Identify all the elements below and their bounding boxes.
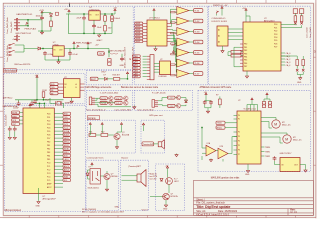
transistor Q9 (163, 193, 170, 200)
wire U7-U8 4 (228, 39, 243, 41)
wires MCU left rows (20, 113, 24, 124)
svg-text:TXD0: TXD0 (217, 123, 222, 125)
svg-text:CAN1: CAN1 (133, 55, 138, 58)
transistor Q2 (124, 96, 128, 100)
wire MCU pin row 3 (54, 120, 63, 122)
svg-text:KiCad E.D.A. kicad (5.1.10)-1: KiCad E.D.A. kicad (5.1.10)-1 (196, 214, 229, 217)
svg-text:GND PWR/TLG1: GND PWR/TLG1 (15, 33, 32, 35)
+5V arrow ecr2 (101, 123, 103, 127)
svg-text:LED?: LED? (174, 181, 179, 183)
wire MCU pin row 19 (54, 176, 63, 178)
ground U10 (304, 169, 307, 172)
pin U5 left 7 (143, 40, 147, 42)
pins U3 left (58, 84, 64, 93)
svg-text:Conn_01x02: Conn_01x02 (310, 27, 312, 38)
svg-text:Verin?: Verin? (142, 209, 149, 212)
svg-text:OUT: OUT (59, 49, 63, 51)
wire MCU pin row 11 (54, 148, 63, 150)
label Ecrans (87, 116, 99, 120)
junction (83, 13, 84, 14)
svg-text:P1: P1 (238, 119, 240, 121)
net label box amp 4 (194, 40, 203, 44)
capacitor C5 (43, 51, 47, 56)
junction (58, 59, 59, 60)
svg-text:Conn_01x06: Conn_01x06 (6, 114, 8, 126)
svg-text:D?: D? (104, 75, 106, 77)
pin J4 2 (147, 58, 150, 60)
wire U9 TXD0 (225, 122, 237, 124)
LED DC (296, 69, 298, 71)
svg-text:SWCom-SW170: SWCom-SW170 (14, 64, 31, 66)
feed resistor amp 7 (171, 74, 175, 76)
svg-text:LDR-NTC N-OFF: LDR-NTC N-OFF (212, 21, 228, 23)
wire MCU pin row 8 (54, 137, 63, 139)
svg-text:ADC0: ADC0 (64, 161, 69, 164)
svg-text:120R: 120R (42, 90, 47, 92)
net label box MCU left 4 (12, 122, 20, 125)
wire MCU pin row 18 (54, 172, 63, 174)
svg-text:Motor_DC: Motor_DC (282, 124, 291, 127)
pwr flag (26, 22, 28, 25)
svg-text:+5V: +5V (95, 44, 99, 46)
pin U8 left 3 (240, 49, 243, 51)
connector 2p box B (299, 9, 303, 14)
op-amp A6 (177, 59, 189, 67)
wire C2 down (83, 20, 85, 33)
wire diode to reg (41, 48, 53, 50)
svg-text:PB4: PB4 (47, 155, 50, 157)
wire MCU pin row 15 (54, 162, 63, 164)
net label box amp 7 (194, 72, 203, 76)
group box Alimentation (5, 6, 134, 70)
junction (73, 48, 74, 49)
transistor Q7 (114, 134, 120, 140)
diode D1 (50, 14, 53, 17)
svg-text:Conn_02x05: Conn_02x05 (11, 21, 13, 33)
net label box clip L2 (115, 97, 122, 101)
wire J4 5 (143, 67, 147, 69)
wire U8 vcc (246, 12, 250, 22)
net label box J4 1 (133, 55, 141, 58)
resistor R52 (101, 134, 108, 137)
wire MCU pin row 10 (54, 144, 63, 146)
svg-text:(Tweeter)/HP?: (Tweeter)/HP? (128, 165, 142, 168)
net label box clipR 2 (168, 104, 176, 108)
wire MCU gnd (38, 188, 40, 200)
capacitor C20 (203, 100, 207, 105)
pin U9 right 1 (261, 146, 265, 148)
net label box U9 RXD0 (216, 126, 225, 129)
capacitor C2 (82, 16, 86, 21)
pin J4 5 (147, 67, 150, 69)
wire R1 down and rail (38, 27, 51, 31)
svg-text:PB7: PB7 (244, 66, 247, 68)
resistor R22 (294, 16, 297, 22)
svg-text:PD1: PD1 (274, 27, 277, 29)
ground amp (209, 159, 212, 162)
junction (44, 103, 45, 104)
wire J4-U6 1 (154, 62, 160, 64)
wires motor M1 (261, 118, 276, 129)
svg-text:Ecrans: Ecrans (88, 117, 96, 120)
+5V arrow com (221, 6, 223, 10)
net label box J4 4 (133, 64, 141, 67)
wire U7-U8 3 (228, 35, 243, 37)
LED D8 (166, 178, 173, 185)
svg-text:CAN2: CAN2 (133, 58, 138, 61)
pin J4 8 (147, 76, 150, 78)
svg-text:GND: GND (163, 209, 168, 211)
svg-text:PB2: PB2 (47, 148, 50, 150)
wire MCU pin row 14 (54, 158, 63, 160)
svg-text:PB2: PB2 (244, 50, 247, 52)
svg-text:BC547A: BC547A (122, 134, 130, 137)
wire R2-R3 (104, 21, 106, 25)
pin U5 right 6 (167, 37, 171, 39)
pin J4 7 (147, 73, 150, 75)
red mark near teal labels (130, 59, 132, 61)
wire MCU pin row 17 (54, 169, 63, 171)
wire amp input minus 7 (175, 74, 177, 76)
svg-text:R?: R? (216, 94, 218, 96)
wires fanout left clip (95, 98, 131, 107)
ground 7805 (57, 60, 60, 63)
svg-text:+12V: +12V (39, 10, 45, 12)
connector J1b pins (14, 35, 20, 41)
svg-text:A2: A2 (218, 34, 220, 37)
svg-text:INT1: INT1 (64, 124, 68, 126)
op-amp A7 (177, 70, 189, 78)
wires crystal (35, 98, 64, 108)
pin U9 left 5 (234, 140, 238, 142)
wire Q7 down (116, 140, 118, 146)
net label box Tweeter (142, 142, 155, 146)
resistor R20 (231, 50, 241, 53)
svg-text:T-CL5: T-CL5 (168, 98, 173, 100)
svg-text:M: M (274, 123, 277, 127)
+5V arrow maxlink (205, 93, 207, 97)
junction (36, 99, 37, 100)
svg-text:U? 74HC14: U? 74HC14 (149, 18, 160, 20)
svg-text:Date: 26/05/2022: Date: 26/05/2022 (218, 210, 238, 213)
wire J4 4 (143, 64, 147, 66)
capacitor C11 left (8, 127, 12, 131)
net label box row 13 (63, 154, 71, 157)
svg-text:CA_3: CA_3 (286, 61, 291, 64)
pin U5 right 1 (167, 22, 171, 24)
svg-text:A3: A3 (218, 40, 220, 43)
svg-text:PD7: PD7 (47, 138, 50, 140)
net label box amp 1 (194, 9, 203, 13)
pin J4 9 (147, 78, 150, 80)
+BATT arrow (41, 11, 43, 15)
pin J4 4 (147, 64, 150, 66)
diode D9 (160, 178, 163, 181)
svg-text:PD5: PD5 (274, 40, 277, 42)
svg-text:TLG6: TLG6 (194, 63, 200, 65)
junction (108, 51, 109, 52)
net label box U5 row 6 (135, 37, 143, 40)
svg-text:PWR_FLAG +5V: PWR_FLAG +5V (76, 41, 92, 44)
pin J4 1 (147, 55, 150, 57)
wire C3 down (105, 21, 112, 33)
svg-text:CAN5: CAN5 (133, 67, 138, 70)
net label box J4 6 (133, 69, 141, 72)
svg-text:Tweeter/HP?: Tweeter/HP? (143, 143, 155, 146)
svg-text:MOSI: MOSI (12, 113, 17, 115)
svg-text:PWR_FLAG: PWR_FLAG (25, 27, 37, 30)
svg-text:TWR1: TWR1 (265, 151, 270, 153)
wire U7 gnd (222, 46, 224, 50)
wires conn to resistors (295, 13, 301, 15)
svg-text:100uF: 100uF (114, 18, 121, 20)
frame zone ticks bottom (29, 215, 295, 217)
wire bus vertical 2 (171, 20, 177, 27)
svg-text:LED1: LED1 (64, 159, 69, 161)
net label box J4 5 (133, 67, 141, 70)
svg-text:MAXLINK gestion des relais: MAXLINK gestion des relais (211, 177, 240, 180)
net label box row 9 (63, 140, 71, 143)
net label box SWITCH (97, 52, 105, 56)
svg-text:CAN7: CAN7 (133, 72, 138, 75)
squiggle under label (110, 53, 118, 54)
group box interface RS485 (4, 74, 85, 104)
svg-text:ADC3: ADC3 (64, 172, 69, 175)
capacitor C24 pol (268, 102, 271, 108)
svg-text:ADC1: ADC1 (64, 165, 69, 168)
svg-text:PD4: PD4 (47, 127, 50, 129)
svg-text:CAN4: CAN4 (133, 64, 138, 67)
net label box row 17 (63, 168, 71, 171)
wire U9 RXD0 (225, 127, 237, 129)
wire bus vertical 7 (171, 41, 177, 72)
net label box amp 6 (194, 61, 203, 65)
+5V arrow out (114, 9, 116, 13)
wire U9 gnd (247, 164, 249, 169)
net label box MCU left 2 (12, 115, 20, 118)
svg-text:+5V: +5V (113, 8, 117, 10)
group box T-CLIP left (87, 90, 133, 110)
svg-text:SPK1: SPK1 (64, 141, 69, 143)
svg-text:R52: R52 (101, 132, 104, 134)
transistor Q4 (124, 101, 128, 105)
wire U8 right r1 (281, 25, 302, 28)
pin U5 left 3 (143, 28, 147, 30)
diode D6 (185, 100, 188, 103)
wire MCU pin row 4 (54, 123, 63, 125)
svg-text:SWITCH-GND/S: SWITCH-GND/S (108, 50, 125, 52)
svg-text:PC5: PC5 (47, 180, 50, 182)
+5V arrow led (166, 166, 168, 170)
svg-text:Title: DigiTest update: Title: DigiTest update (196, 205, 230, 209)
ground clip (133, 106, 136, 109)
pin U5 left 2 (143, 25, 147, 27)
relay K1 (90, 169, 100, 185)
svg-text:PC1: PC1 (47, 166, 50, 168)
IC U10 osc body (280, 158, 300, 172)
capacitor C8 (120, 57, 124, 62)
wire U7-U8 2 (228, 32, 243, 34)
frame zone ticks left (0, 57, 3, 165)
net label box amp 2 (194, 19, 203, 23)
svg-text:CA_4: CA_4 (286, 64, 291, 67)
net label box row 15 (63, 161, 71, 164)
frame zone ticks right (313, 57, 316, 165)
wire bus vertical 3 (171, 28, 177, 31)
svg-text:ECRA: ECRA (64, 130, 70, 133)
svg-text:ATMEGA connexion GPS carte: ATMEGA connexion GPS carte (200, 86, 232, 89)
wire r30 (219, 96, 221, 108)
net label box row 2 (63, 116, 71, 119)
transistor Q6 (176, 104, 180, 108)
wire U8 left loop (234, 47, 240, 67)
capacitor C13 xtal (33, 99, 37, 104)
wire LM317 out (94, 12, 115, 25)
svg-text:U?: U? (238, 100, 240, 102)
svg-text:PB0: PB0 (47, 141, 50, 143)
diode D2 (38, 47, 41, 50)
wire U5 vcc (153, 12, 155, 20)
svg-text:ADC2: ADC2 (64, 168, 69, 171)
svg-text:MISO: MISO (12, 116, 17, 118)
net label box row 1 (63, 112, 71, 115)
resistor R24 (296, 60, 299, 66)
net label box U5 row 2 (135, 25, 143, 28)
svg-text:Buzzer: Buzzer (121, 157, 128, 160)
svg-text:INT0: INT0 (64, 120, 68, 122)
capacitor C9 (17, 101, 21, 106)
resistor R4 120 (42, 92, 45, 98)
wire U5 gnd (156, 46, 174, 51)
svg-text:T-CL: T-CL (64, 127, 68, 129)
svg-text:CAN8: CAN8 (133, 75, 138, 78)
frame outer bottom line (0, 217, 316, 219)
transistor Q3 (109, 101, 113, 105)
IC U9 MCU2 body (237, 111, 261, 164)
op-amp A2 (177, 17, 189, 25)
svg-text:PC4: PC4 (47, 176, 50, 178)
group box Bandes de sens (134, 6, 208, 85)
svg-text:P3: P3 (238, 136, 240, 138)
connector J1 pins (14, 18, 20, 30)
IC U8 ATtiny body (243, 22, 281, 71)
wires rpack (228, 52, 243, 56)
svg-text:TLG3: TLG3 (194, 32, 200, 34)
op-amp A8 (206, 145, 216, 156)
svg-text:Conn_01x04_Male_D: Conn_01x04_Male_D (86, 109, 106, 111)
svg-text:RXD0: RXD0 (217, 127, 222, 129)
wire led top (167, 170, 169, 178)
net label box row 19 (63, 175, 71, 178)
svg-text:G5LE-14DC5: G5LE-14DC5 (88, 188, 99, 190)
svg-text:22pF: 22pF (45, 99, 50, 101)
junction (83, 33, 84, 34)
wire tweeter (144, 127, 159, 144)
paper margin top (0, 0, 320, 3)
pin U5 left 5 (143, 34, 147, 36)
svg-text:PD3: PD3 (274, 34, 277, 36)
MCU U4 ATmega328 body (23, 108, 54, 194)
connector J2 (89, 97, 95, 105)
svg-text:MAX3485-ESA: MAX3485-ESA (3, 105, 18, 108)
capacitor C10 (30, 101, 34, 106)
transistor Q8 (104, 174, 110, 180)
pin U8 left 6 (240, 59, 243, 61)
frame zone ticks top (29, 0, 295, 3)
ground rail (98, 34, 101, 37)
capacitor C23 pol (262, 102, 265, 108)
svg-text:PB1: PB1 (47, 145, 50, 147)
svg-text:P0: P0 (238, 115, 240, 117)
svg-text:GND: GND (245, 174, 250, 176)
group box Microcontroleur (5, 105, 86, 211)
pin U9 left 2 (234, 118, 238, 120)
wire amp input minus 5 (175, 53, 177, 55)
svg-text:Motor_DC: Motor_DC (293, 139, 302, 142)
wire MCU pin row 5 (54, 127, 63, 129)
svg-text:R51: R51 (89, 132, 92, 134)
diode D5 (105, 77, 108, 80)
wire amp input minus 2 (175, 22, 177, 24)
svg-text:K?: K? (89, 167, 91, 169)
capacitor C7 electrolytic (108, 59, 111, 66)
net label box J4 7 (133, 72, 141, 75)
wire amp input minus 1 (175, 11, 177, 13)
wires verin (88, 170, 107, 188)
wires ecrans (89, 126, 122, 135)
junction (104, 33, 105, 34)
connector 2p box A (293, 9, 297, 14)
svg-text:Conn_02x05_Male: Conn_02x05_Male (7, 44, 9, 62)
regulator U1 LM317 body (89, 11, 100, 20)
wires amps (202, 128, 237, 162)
wire J4 7 (143, 73, 147, 75)
svg-text:SPK2: SPK2 (64, 145, 69, 147)
svg-text:GPS pins vert: GPS pins vert (149, 114, 163, 117)
svg-text:T-CL6: T-CL6 (168, 106, 173, 108)
junction (93, 33, 94, 34)
svg-text:OUT: OUT (95, 14, 99, 16)
svg-text:PB5: PB5 (244, 60, 247, 62)
wire MCU pin row 6 (54, 130, 63, 132)
motor M2 (283, 135, 291, 143)
ground (40, 31, 43, 34)
svg-text:AREF: AREF (47, 182, 52, 185)
svg-text:TLG4: TLG4 (194, 42, 200, 44)
wires C23 C24 (264, 97, 270, 102)
capacitor C12 left (13, 127, 17, 131)
wire MCU pin row 12 (54, 151, 63, 153)
net label box clip row2b (115, 101, 122, 105)
net label box J4 8 (133, 75, 141, 78)
net label box U9 TXD0 (216, 121, 225, 124)
svg-text:PD4: PD4 (274, 37, 277, 39)
wire J4-U6 4 (154, 71, 160, 73)
wire U8 right row 4 (281, 61, 285, 63)
feed resistor amp 2 (171, 22, 175, 24)
wire flag (217, 10, 223, 16)
resistor R21 (231, 54, 241, 57)
wire led row (98, 76, 128, 79)
feed resistor amp 6 (171, 64, 175, 66)
svg-text:SW?/Rear: SW?/Rear (3, 97, 13, 100)
svg-text:TWR0: TWR0 (265, 147, 270, 149)
wire +5V down to rail (15, 79, 64, 102)
group box LED affichage (87, 71, 133, 85)
svg-text:TLG7: TLG7 (194, 74, 200, 76)
svg-text:SEN7: SEN7 (136, 41, 141, 43)
svg-text:T-CL3: T-CL3 (101, 103, 106, 105)
